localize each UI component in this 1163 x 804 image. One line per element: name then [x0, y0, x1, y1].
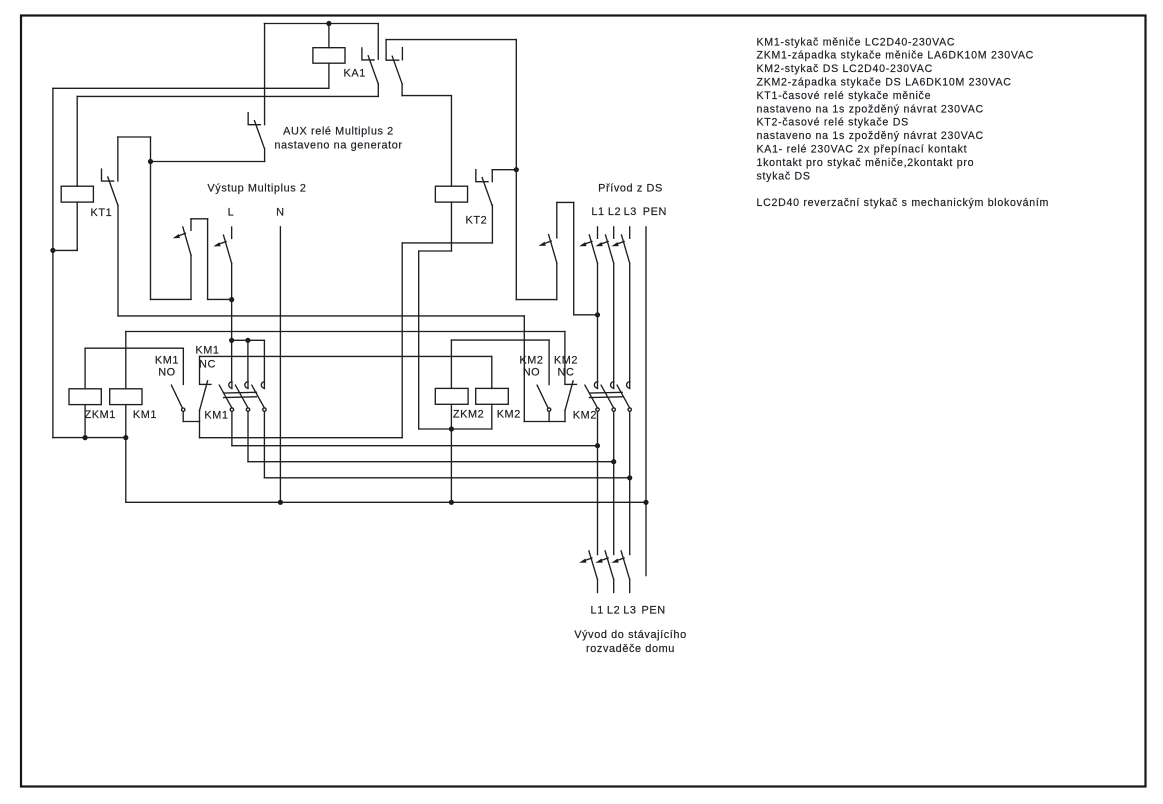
node ZKM2 bottom junction [449, 426, 454, 431]
node N to PEN junction [643, 500, 648, 505]
wire bypass riser [573, 202, 575, 314]
relay coil KA1 [313, 48, 345, 64]
svg-text:Vývod do stávajícího: Vývod do stávajícího [574, 629, 687, 641]
wire KM1 coil bottom lead [125, 405, 127, 438]
wire KT1 contact link horizontal [118, 136, 151, 138]
wire KM2 coil bottom lead [491, 404, 493, 429]
latch coil ZKM2 [435, 388, 468, 404]
svg-text:NC: NC [558, 367, 575, 379]
wire KA1.1 output to KT1 coil [77, 95, 378, 97]
wire KA1 coil bottom lead [328, 63, 330, 88]
wire KM1 coil top bus to KM2 NC [126, 331, 565, 333]
node pole2-L2 junction [611, 459, 616, 464]
node KT1 coil return junction [50, 248, 55, 253]
wire L3 lower column [629, 411, 631, 554]
wire KT1 coil return [53, 249, 77, 251]
contact KA1.2 (NO) [386, 40, 399, 61]
contact KM1 NC auxiliary [199, 356, 201, 384]
latch coil ZKM1 [69, 389, 101, 405]
wire ZKM2 bottom lead [450, 404, 452, 429]
contactor coil KM1 [110, 389, 142, 405]
wire bypass top link [557, 201, 574, 203]
wire AUX output horizontal [151, 161, 265, 163]
wire AUX output drop [264, 149, 266, 162]
node ZKM2 return on N bus [449, 500, 454, 505]
wire ZKM2 top lead [450, 340, 452, 388]
wire L2 column to KM2 pole [613, 263, 615, 382]
wire KT2 contact tick [491, 170, 493, 182]
svg-text:nastaveno na generator: nastaveno na generator [274, 140, 402, 152]
svg-text:PEN: PEN [643, 206, 667, 218]
svg-text:ZKM1-západka stykače měniče LA: ZKM1-západka stykače měniče LA6DK10M 230… [757, 50, 1034, 62]
contact changeover blade [183, 227, 191, 255]
wire KM1 pole 1 bottom [231, 411, 233, 445]
contact L disconnector (arrow) [231, 227, 233, 238]
svg-text:L3: L3 [623, 604, 636, 616]
wire KA1.2 feed from DS riser [386, 39, 516, 41]
wire KM1 pole 2 top terminal [247, 340, 249, 382]
contactor KM2 pole 3 [627, 382, 630, 388]
svg-text:KM2: KM2 [497, 409, 521, 421]
node L1 tap [595, 312, 600, 317]
wire ZKM2 top to KM2 NO [451, 339, 549, 341]
wire DS L3 tick [629, 227, 631, 238]
contactor KM1 pole 3 [261, 382, 264, 388]
contact DS bypass (arrow) [549, 235, 557, 263]
wire ZKM2 return drop [450, 429, 452, 502]
wire KT1 coil bottom lead [76, 202, 78, 250]
wire KM2 NC bottom drop [564, 410, 566, 421]
svg-text:KM1: KM1 [195, 345, 219, 357]
wire KT2 coil bottom jog [419, 250, 452, 252]
svg-text:Výstup Multiplus 2: Výstup Multiplus 2 [207, 183, 306, 195]
contact KT1 timed (NO) [102, 169, 114, 181]
svg-text:NC: NC [199, 359, 216, 371]
contact DS L3 disconnector [622, 235, 630, 263]
wire KA1.2 output to KT2 coil [402, 95, 451, 97]
wire outgoing L3 stub [629, 580, 631, 593]
wire KM1 pole 2 bottom [247, 411, 249, 461]
wire KM1 pole 1 output to L1 [232, 445, 598, 447]
wire KM2 NC top terminal [564, 332, 566, 385]
svg-text:N: N [276, 207, 284, 219]
svg-text:rozvaděče domu: rozvaděče domu [586, 643, 675, 655]
wire N bus bottom [126, 501, 646, 503]
wire AUX contact feed vertical [264, 24, 266, 125]
wire KT1 output bus to KM2 aux [118, 315, 524, 317]
svg-text:LC2D40 reverzační stykač s mec: LC2D40 reverzační stykač s mechanickým b… [757, 197, 1050, 209]
svg-text:KA1: KA1 [344, 68, 366, 80]
node KM1 return [123, 435, 128, 440]
contact KM2 NO auxiliary [548, 340, 550, 384]
node KA1 coil top junction [326, 21, 331, 26]
contact DS L1 disconnector [589, 235, 597, 263]
wire KM1 pole 3 top terminal [263, 340, 265, 382]
wire KA1 coil return horizontal [53, 87, 329, 89]
wire PEN column lower [645, 502, 647, 575]
wire KA1.1 output drop [377, 84, 379, 96]
wire KT2 output to KM1 NO/NC junction [200, 437, 403, 439]
wire KA1.2 output drop [401, 84, 403, 96]
wire ZKM1 bottom lead [84, 405, 86, 438]
wire KT1 contact top terminal [117, 137, 119, 181]
svg-text:KM1-stykač měniče LC2D40-230VA: KM1-stykač měniče LC2D40-230VAC [757, 36, 956, 48]
svg-text:stykač DS: stykač DS [757, 170, 811, 182]
contactor KM1 pole 1 [229, 382, 232, 388]
contact changeover KA1-side (arrow) [190, 219, 192, 231]
wire L1 lower column [597, 411, 599, 554]
contactor KM2 pole 2 [611, 382, 614, 388]
node KT2 contact tap on DS riser [514, 167, 519, 172]
wire KT1 coil top lead [76, 96, 78, 186]
svg-text:KT1: KT1 [91, 207, 113, 219]
timer coil KT1 [61, 186, 93, 202]
svg-text:KM2: KM2 [554, 355, 578, 367]
wire bypass bottom leg [556, 263, 558, 300]
wire bypass to DS riser [516, 299, 557, 301]
wire L2 lower column [613, 411, 615, 554]
svg-text:KM1: KM1 [133, 409, 157, 421]
wire AUX junction drop [150, 162, 152, 300]
contact L blade [223, 235, 231, 263]
wire changeover to L node [208, 298, 232, 300]
wire KM1 pole 2 output to L2 [248, 461, 614, 463]
wire KM1 NC bottom drop [199, 410, 201, 438]
wire changeover bottom link left [151, 298, 192, 300]
svg-text:KM2-stykač DS LC2D40-230VAC: KM2-stykač DS LC2D40-230VAC [757, 63, 933, 75]
contactor KM2 pole 1 [594, 382, 597, 388]
wire changeover bottom leg [190, 255, 192, 299]
wire ZKM1 top to KM1 NO [85, 347, 183, 349]
svg-text:KM2: KM2 [573, 409, 597, 421]
wire KT2 output horizontal [402, 242, 492, 244]
wire KM2 coils return [419, 428, 492, 430]
contact KA1.1 (NO) [362, 48, 374, 60]
wire KM1 NO output link [183, 421, 199, 423]
wire KA1.1 top terminal [377, 24, 379, 60]
svg-text:nastaveno na 1s zpožděný návra: nastaveno na 1s zpožděný návrat 230VAC [757, 130, 984, 142]
contactor KM1 pole 2 [245, 382, 248, 388]
wire DS L1 riser vertical [515, 40, 517, 300]
wire L1 column to KM2 pole [597, 263, 599, 382]
svg-text:KT2-časové relé stykače DS: KT2-časové relé stykače DS [757, 117, 909, 129]
wire KM1 NO output drop [182, 411, 184, 421]
wire changeover top link [191, 218, 208, 220]
wire DS L2 tick [613, 227, 615, 238]
svg-text:KM1: KM1 [155, 355, 179, 367]
KM1 mechanical linkage [224, 391, 257, 394]
wire KT2 contact link to DS riser [492, 169, 516, 171]
node ZKM1 return [83, 435, 88, 440]
wire bypass to L1 tap [574, 314, 598, 316]
svg-text:L3: L3 [624, 206, 637, 218]
svg-text:KT1-časové relé stykače měniče: KT1-časové relé stykače měniče [757, 90, 932, 102]
wire KM1 pole 3 bottom [263, 411, 265, 477]
svg-text:KT2: KT2 [466, 215, 488, 227]
wire KT2 coil bottom lead [450, 202, 452, 251]
wire riser to KM2 NO/NC junction [523, 316, 525, 422]
node KM1 pole feed 2 [245, 338, 250, 343]
wire outgoing L1 stub [597, 580, 599, 593]
KM2 mechanical linkage [589, 391, 622, 394]
wire N column [279, 227, 281, 503]
svg-text:AUX relé Multiplus 2: AUX relé Multiplus 2 [283, 126, 394, 138]
wire coil return bottom [53, 437, 126, 439]
wire KT2 coil top lead [450, 96, 452, 187]
svg-text:KA1- relé 230VAC 2x přepínací: KA1- relé 230VAC 2x přepínací kontakt [757, 144, 968, 156]
svg-text:KM1: KM1 [204, 409, 228, 421]
contact AUX relay Multiplus (NO) [248, 113, 260, 125]
wire L column down to KM1 pole 1 [231, 263, 233, 382]
wire KM2 NO output drop [548, 411, 550, 421]
node L changeover junction [229, 297, 234, 302]
wire left return bus vertical [52, 88, 54, 437]
node pole3-L3 junction [627, 475, 632, 480]
wire KM1 pole feed bus [232, 339, 265, 341]
svg-text:PEN: PEN [641, 604, 665, 616]
contactor coil KM2 [476, 388, 509, 404]
timer coil KT2 [435, 186, 467, 202]
wire KM2 coil top lead [491, 356, 493, 388]
node AUX output junction [148, 159, 153, 164]
svg-text:L2: L2 [608, 206, 621, 218]
wire top net from AUX to KA1 contact [264, 23, 378, 25]
wire ZKM1 top lead [84, 348, 86, 389]
wire return drop to N bus [125, 438, 127, 503]
wire KT1 contact link vertical [150, 137, 152, 162]
contact DS L2 disconnector [606, 235, 614, 263]
contact outgoing L3 disconnector [621, 551, 630, 580]
svg-text:nastaveno na 1s zpožděný návra: nastaveno na 1s zpožděný návrat 230VAC [757, 103, 984, 115]
wire KT2 output drop [491, 205, 493, 243]
svg-text:Přívod z DS: Přívod z DS [598, 182, 663, 194]
node N column junction [278, 500, 283, 505]
wire PEN column [645, 227, 647, 502]
contact outgoing L1 disconnector [589, 551, 598, 580]
wire KA1 coil top lead [328, 24, 330, 48]
svg-text:ZKM1: ZKM1 [85, 409, 116, 421]
svg-text:KM2: KM2 [519, 355, 543, 367]
svg-text:1kontakt pro stykač měniče,2ko: 1kontakt pro stykač měniče,2kontakt pro [757, 157, 975, 169]
wire changeover right leg [207, 219, 209, 300]
svg-text:L1: L1 [591, 206, 604, 218]
svg-text:L1: L1 [591, 604, 604, 616]
wire KM2 NO/NC junction link [524, 421, 565, 423]
wire KT1 output drop [117, 205, 119, 316]
wire KM1 NC bus to KM2 coil [200, 355, 492, 357]
wire KT2 return drop to KM2 coils [418, 251, 420, 429]
svg-text:ZKM2: ZKM2 [453, 409, 484, 421]
wire KM1 pole 3 output to L3 [264, 477, 629, 479]
node KM1 pole feed 1 [229, 338, 234, 343]
contact KT2 timed (NO) [476, 170, 488, 182]
contact KM1 NO auxiliary [182, 348, 184, 384]
svg-text:L2: L2 [607, 604, 620, 616]
svg-text:L: L [228, 207, 235, 219]
node pole1-L1 junction [595, 443, 600, 448]
wire KT2 output drop 2 [401, 243, 403, 438]
wire KM1 coil top lead [125, 332, 127, 389]
svg-text:NO: NO [523, 367, 541, 379]
contact KM2 NC auxiliary [566, 383, 577, 385]
wire outgoing L2 stub [613, 580, 615, 593]
wire L3 column to KM2 pole [629, 263, 631, 382]
svg-text:ZKM2-západka stykače DS LA6DK1: ZKM2-západka stykače DS LA6DK10M 230VAC [757, 77, 1012, 89]
contact outgoing L2 disconnector [605, 551, 614, 580]
wire bypass contact terminal [556, 202, 558, 238]
wire DS L1 tick [597, 227, 599, 238]
svg-text:NO: NO [158, 367, 176, 379]
